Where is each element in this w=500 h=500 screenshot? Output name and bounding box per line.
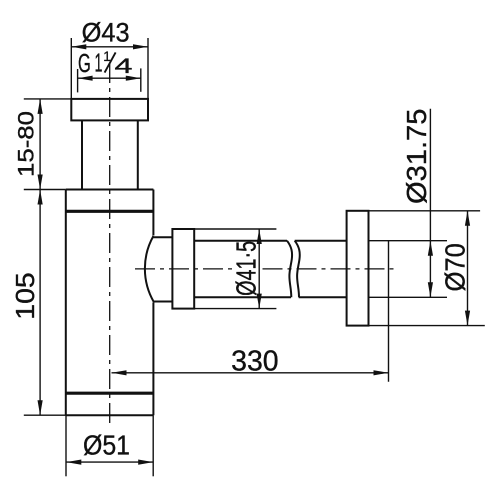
dim 330 arrow left: [112, 370, 127, 375]
dim 41.5 top extension (nut top extended): [194, 228, 276, 230]
dim 51 arrow right: [138, 460, 153, 465]
outlet pipe top edge: [194, 240, 346, 242]
dim G1-1/4 arrow right: [126, 76, 141, 81]
dim 105 bottom extension (body bottom extended): [24, 414, 66, 416]
dim 41.5 arrow down: [257, 294, 262, 309]
dim 70 arrow up: [465, 211, 470, 226]
dim 43 extension right: [147, 38, 149, 99]
dim 70 top extension: [369, 210, 481, 212]
body upper ring (thick): [66, 210, 154, 213]
svg-text:4: 4: [115, 54, 133, 78]
boss top line: [153, 236, 172, 238]
svg-text:Ø31.75: Ø31.75: [401, 109, 432, 205]
dim 31.75 arrow up: [428, 241, 433, 256]
dim G1-1/4 arrow left: [78, 76, 93, 81]
dim 43 extension left: [70, 38, 72, 99]
dim 51 arrow left: [66, 460, 81, 465]
dim 105 arrow up: [38, 190, 43, 205]
tailpiece pipe left edge: [81, 120, 83, 189]
dim 43 arrow right: [133, 44, 148, 49]
horizontal center line right part: [263, 268, 398, 270]
vertical center line: [109, 63, 111, 428]
dim 15-80 arrow down: [38, 175, 43, 190]
wall flange: [347, 211, 369, 326]
svg-text:Ø70: Ø70: [440, 243, 471, 292]
dim 15-80 arrow up: [38, 99, 43, 114]
dim 15-80 line: [39, 99, 41, 190]
dim 105 arrow down: [38, 400, 43, 415]
label G1-1/4: [78, 47, 133, 77]
top flange (inlet nut): [71, 99, 148, 121]
dim 330 arrow right: [374, 370, 389, 375]
dim 51 line: [66, 461, 153, 463]
svg-text:1: 1: [95, 47, 103, 77]
svg-text:15-80: 15-80: [13, 111, 38, 177]
tailpiece pipe right edge: [137, 120, 139, 189]
svg-text:G: G: [78, 48, 91, 78]
svg-text:Ø43: Ø43: [82, 18, 130, 48]
dim G1-1/4 extension right: [140, 68, 142, 91]
dim G1-1/4 line: [78, 77, 141, 79]
dim G1-1/4 extension left: [77, 69, 79, 92]
dim 15-80 top extension (flange top extended): [24, 98, 72, 100]
pipe break curve 2: [295, 241, 300, 298]
dim 330 line: [112, 372, 389, 374]
dim 15-80 bottom extension (body top extended): [24, 189, 66, 191]
dim 43 arrow left: [71, 44, 86, 49]
svg-text:Ø41·5: Ø41·5: [231, 241, 262, 296]
dim 105 line: [39, 190, 41, 416]
dim 70 bottom extension: [369, 325, 485, 327]
dim 51 extension right (body right edge extended down): [152, 415, 154, 476]
dim 43 line: [71, 46, 148, 48]
dim 70 line: [467, 211, 469, 326]
outlet boss arc: [145, 236, 154, 302]
horizontal center line: [135, 268, 234, 270]
dim 41.5 line: [258, 229, 260, 309]
dim 31.75 arrow down: [428, 282, 433, 297]
pipe break curve 1: [287, 241, 292, 298]
wall pipe top edge: [369, 240, 448, 242]
dim 41.5 bottom extension (nut bottom extended): [194, 308, 276, 310]
wall pipe end edge / 330 extension: [388, 241, 390, 382]
wall pipe bottom edge: [369, 296, 448, 298]
dim 31.75 line + leader: [429, 109, 431, 298]
svg-text:Ø51: Ø51: [83, 430, 130, 461]
body lower ring (thick): [66, 392, 154, 395]
outlet pipe bottom edge: [194, 296, 346, 298]
compression nut: [172, 229, 194, 309]
svg-text:105: 105: [10, 272, 40, 320]
svg-text:330: 330: [231, 346, 279, 378]
dim 51 extension left (body left edge extended down): [65, 415, 67, 476]
dim 41.5 arrow up: [257, 229, 262, 244]
dim 70 arrow down: [465, 311, 470, 326]
boss bottom line: [153, 301, 172, 303]
bottle body outline: [66, 190, 154, 416]
